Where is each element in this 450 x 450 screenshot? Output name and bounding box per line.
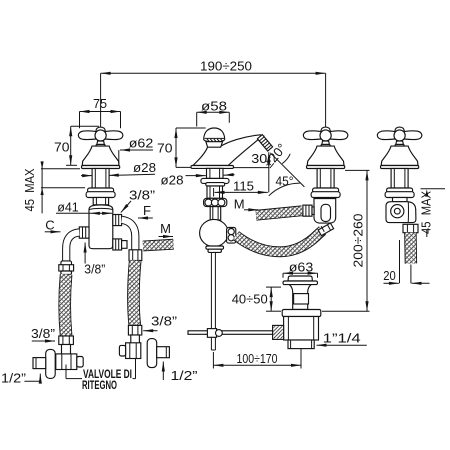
label Ø28 left valve bbox=[81, 160, 156, 176]
M braided stub near left valve bbox=[143, 244, 174, 246]
dim 115 bbox=[215, 178, 268, 193]
±20° swivel arc bbox=[282, 154, 290, 164]
svg-text:70: 70 bbox=[54, 139, 70, 154]
tee body bbox=[200, 219, 229, 246]
left valve upper right port bbox=[113, 215, 122, 226]
label 3/8" left check valve bbox=[31, 326, 55, 341]
pop-up waste neck bbox=[289, 285, 311, 310]
dim 190÷250 top bbox=[101, 59, 326, 128]
svg-text:20: 20 bbox=[383, 268, 396, 283]
label Ø28 spout bbox=[161, 172, 235, 187]
svg-text:C: C bbox=[45, 218, 54, 233]
45° leader line from aerator bbox=[270, 153, 304, 187]
svg-text:ø58: ø58 bbox=[201, 98, 227, 113]
second valve body bbox=[314, 199, 336, 224]
C hose upper nut bbox=[59, 261, 74, 275]
label 1"1/4 bbox=[317, 331, 367, 346]
dim 45 MAX right bbox=[418, 189, 445, 237]
dim Ø41 bbox=[56, 200, 112, 215]
right valve braided hose bbox=[404, 233, 417, 264]
label 3/8" under left valve bbox=[84, 243, 105, 277]
left check valve body bbox=[56, 354, 83, 370]
svg-text:3/8”: 3/8” bbox=[129, 188, 155, 203]
dim 200÷260 bbox=[322, 170, 370, 311]
waste tail pipe 1"1/4 bbox=[288, 340, 314, 349]
spout stem bbox=[207, 168, 224, 178]
C braided hose bbox=[65, 274, 66, 336]
dim 45 MAX left bbox=[22, 161, 85, 213]
tee bottom bands bbox=[206, 246, 224, 252]
label C bbox=[45, 218, 61, 233]
label Ø62 bbox=[119, 135, 153, 167]
label 3/8" right check valve bbox=[143, 314, 177, 331]
svg-text:115: 115 bbox=[233, 178, 254, 193]
label VALVOLE DI RITEGNO bbox=[66, 353, 136, 392]
right check valve escutcheon bbox=[147, 339, 157, 368]
spout aerator bbox=[257, 135, 272, 151]
svg-text:70: 70 bbox=[157, 141, 173, 156]
spout swivel knurl balls bbox=[204, 198, 227, 206]
45° angle arc bbox=[269, 183, 300, 196]
svg-text:ø62: ø62 bbox=[129, 135, 154, 150]
right check valve inlet bbox=[131, 335, 140, 344]
svg-text:200÷260: 200÷260 bbox=[350, 214, 365, 268]
label M spout bbox=[234, 196, 259, 211]
left valve left port bbox=[79, 227, 89, 238]
pop-up waste cap bbox=[283, 276, 318, 285]
svg-text:75: 75 bbox=[93, 96, 107, 111]
svg-text:ø28: ø28 bbox=[133, 160, 156, 175]
svg-text:1”1/4: 1”1/4 bbox=[323, 331, 361, 346]
left valve body neck bbox=[93, 198, 108, 205]
F braided hose bbox=[133, 261, 135, 326]
right check valve wall pipe 1/2" bbox=[157, 347, 170, 358]
svg-text:100÷170: 100÷170 bbox=[237, 351, 278, 366]
svg-text:45 MAX: 45 MAX bbox=[22, 168, 37, 211]
label F bbox=[138, 203, 153, 218]
right valve hose nut bbox=[403, 224, 418, 232]
dim 20 bbox=[383, 240, 429, 283]
left check valve escutcheon bbox=[46, 349, 56, 378]
svg-text:ø41: ø41 bbox=[57, 200, 79, 215]
dim 70 left valve bbox=[54, 126, 99, 165]
svg-text:F: F bbox=[143, 203, 151, 218]
left valve body bbox=[89, 205, 113, 249]
pop-up lever bbox=[188, 331, 273, 335]
spout dome bbox=[204, 128, 225, 147]
F hose chrome elbow bbox=[122, 220, 136, 251]
spout base ring bbox=[191, 166, 234, 169]
label M left bbox=[159, 221, 174, 237]
dim 100÷170 bbox=[213, 349, 301, 369]
label 1/2" right bbox=[163, 362, 197, 384]
svg-text:3/8”: 3/8” bbox=[84, 261, 105, 276]
tee right port nut bbox=[227, 228, 236, 244]
dim 70 spout bbox=[157, 128, 206, 167]
svg-text:3/8”: 3/8” bbox=[151, 314, 177, 329]
C hose chrome elbow bbox=[66, 233, 79, 262]
second valve top bbox=[303, 127, 347, 197]
waste body bbox=[284, 317, 319, 341]
svg-text:40÷50: 40÷50 bbox=[232, 292, 268, 307]
tee upper stem bbox=[210, 207, 221, 220]
M braided stub to 2nd valve bbox=[256, 211, 302, 216]
spout locknut flange bbox=[201, 178, 229, 186]
long braided hose tee to 2nd valve bbox=[236, 231, 323, 252]
svg-text:ø28: ø28 bbox=[161, 172, 184, 187]
waste gland (lever entry) bbox=[273, 325, 284, 339]
label 3/8" upper (F port) bbox=[121, 188, 155, 213]
svg-text:45°: 45° bbox=[276, 174, 294, 189]
F hose upper nut bbox=[129, 250, 142, 261]
svg-text:190÷250: 190÷250 bbox=[200, 59, 252, 74]
dim 30 bbox=[234, 151, 270, 192]
dim 40÷50 bbox=[232, 287, 281, 311]
F hose lower nut bbox=[128, 325, 141, 335]
svg-text:1/2”: 1/2” bbox=[1, 371, 26, 386]
spout threaded shank bbox=[207, 186, 223, 198]
right check valve body bbox=[119, 343, 140, 359]
C hose lower nut bbox=[59, 336, 74, 345]
spout body + arm bbox=[193, 135, 264, 166]
svg-text:M: M bbox=[234, 196, 245, 211]
lever clamp at rod bbox=[207, 329, 222, 338]
left check valve wall pipe 1/2" bbox=[33, 358, 46, 369]
label 1/2" left bbox=[1, 371, 40, 386]
svg-text:ø63: ø63 bbox=[289, 259, 314, 274]
svg-text:3/8”: 3/8” bbox=[31, 326, 55, 341]
waste flange bbox=[282, 310, 321, 317]
dim 75 bbox=[80, 96, 121, 129]
svg-text:45 MAX: 45 MAX bbox=[418, 191, 433, 234]
pop-up rod bbox=[211, 252, 215, 350]
left valve lower right port bbox=[113, 239, 127, 250]
svg-text:M: M bbox=[160, 221, 171, 236]
left valve top (handle+bell+stem+flange) bbox=[78, 127, 122, 197]
right valve body side view bbox=[386, 198, 416, 223]
dim Ø63 bbox=[283, 259, 318, 278]
svg-text:1/2”: 1/2” bbox=[171, 368, 198, 383]
left check valve inlet bbox=[62, 345, 71, 355]
second valve elbow nut bbox=[318, 223, 333, 236]
second valve left port nut bbox=[303, 205, 314, 216]
right valve top (side view) bbox=[377, 127, 421, 197]
dim Ø58 bbox=[197, 98, 230, 126]
svg-text:RITEGNO: RITEGNO bbox=[82, 380, 117, 392]
